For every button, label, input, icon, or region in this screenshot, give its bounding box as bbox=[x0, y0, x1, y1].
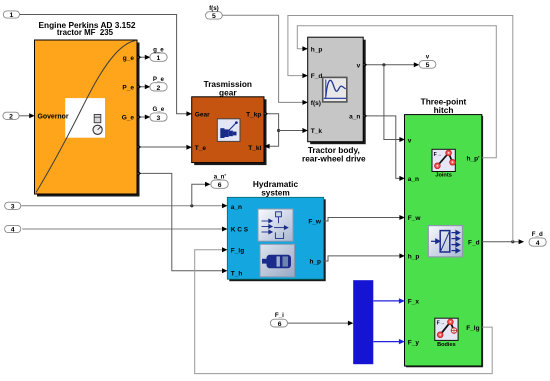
svg-text:f(s): f(s) bbox=[209, 5, 219, 12]
hydramatic port labels bbox=[231, 204, 322, 277]
svg-text:h_p': h_p' bbox=[466, 156, 480, 163]
wire branch to a_n' oval bbox=[192, 184, 206, 206]
inport 5 f(s) bbox=[206, 5, 223, 20]
svg-text:5: 5 bbox=[212, 13, 216, 20]
arrow out1 bbox=[145, 55, 151, 60]
arrow v hitch bbox=[399, 137, 405, 142]
hydramatic valve icon bbox=[258, 209, 293, 241]
svg-text:h_p: h_p bbox=[408, 254, 420, 261]
node junction T_k bbox=[277, 129, 280, 132]
inport 4 bbox=[5, 225, 21, 233]
hitch Joints icon bbox=[432, 149, 455, 171]
arrow K C S bbox=[222, 227, 228, 232]
transmission port labels bbox=[195, 111, 262, 152]
arrow f(s) bbox=[302, 100, 308, 105]
demux block bbox=[353, 280, 373, 364]
arrow out3 bbox=[145, 115, 151, 120]
svg-text:f(s): f(s) bbox=[311, 100, 321, 107]
svg-text:T_kp: T_kp bbox=[246, 111, 261, 118]
block Transmission gear bbox=[192, 97, 267, 165]
hitch port labels bbox=[408, 137, 480, 346]
svg-text:K C S: K C S bbox=[231, 226, 249, 233]
svg-text:5: 5 bbox=[426, 62, 430, 69]
svg-text:G_e: G_e bbox=[153, 106, 165, 113]
outport 4 F_d bbox=[529, 231, 546, 247]
svg-text:a_n': a_n' bbox=[214, 173, 227, 180]
wire in1 to Gear bbox=[20, 15, 188, 114]
arrow Gear bbox=[186, 111, 192, 116]
wire F_d to out4 bbox=[482, 241, 519, 243]
hitch sensor icon bbox=[428, 226, 462, 257]
outport 1 g_e bbox=[150, 46, 167, 62]
svg-text:a_n: a_n bbox=[349, 114, 360, 121]
block Three-point hitch bbox=[405, 115, 484, 368]
wire F_w to hitch bbox=[324, 218, 400, 222]
block Tractor body bbox=[308, 37, 366, 144]
svg-text:h_p: h_p bbox=[311, 46, 323, 53]
svg-text:F_y: F_y bbox=[408, 339, 420, 346]
engine piston icon bbox=[93, 115, 102, 135]
svg-text:T_k: T_k bbox=[311, 128, 323, 135]
svg-text:4: 4 bbox=[536, 240, 540, 247]
node junction F_d bbox=[511, 240, 514, 243]
node junction v bbox=[382, 63, 385, 66]
wire g_e to out1 bbox=[138, 56, 146, 58]
svg-text:F_w: F_w bbox=[408, 215, 422, 222]
svg-text:v: v bbox=[357, 62, 361, 69]
svg-text:F_lg: F_lg bbox=[231, 247, 244, 254]
wire engine to T_h bbox=[138, 173, 223, 270]
arrow T_e bbox=[186, 145, 192, 150]
wire v branch to hitch bbox=[384, 65, 400, 140]
svg-text:Joints: Joints bbox=[435, 173, 451, 179]
svg-text:F→: F→ bbox=[437, 321, 445, 327]
arrow a_n hitch bbox=[399, 176, 405, 181]
wire in4 to K C S bbox=[22, 228, 223, 230]
wire G_e to out3 bbox=[138, 116, 146, 118]
svg-text:h_p: h_p bbox=[309, 259, 321, 266]
svg-text:T_e: T_e bbox=[195, 145, 207, 152]
outport 3 G_e bbox=[150, 106, 167, 122]
transmission title bbox=[204, 79, 252, 97]
svg-text:T_h: T_h bbox=[231, 270, 243, 277]
svg-text:v: v bbox=[426, 54, 430, 61]
wire in2 to Governor bbox=[19, 115, 30, 117]
engine port labels bbox=[122, 55, 135, 122]
hitch Bodies icon bbox=[435, 318, 458, 340]
tractor body output port marks bbox=[364, 63, 367, 118]
arrow F_y bbox=[399, 339, 405, 344]
outport 5 v bbox=[419, 54, 436, 69]
wire demux to F_x bbox=[374, 300, 400, 302]
svg-text:rear-wheel drive: rear-wheel drive bbox=[302, 154, 366, 164]
arrow demux bbox=[348, 321, 354, 326]
inport 1 bbox=[3, 11, 19, 19]
inport 6 F_i bbox=[270, 312, 287, 328]
arrow out5 bbox=[414, 62, 420, 67]
svg-text:a_n: a_n bbox=[231, 204, 242, 211]
wire demux to F_y bbox=[374, 341, 400, 343]
arrow Governor bbox=[29, 113, 35, 118]
wire h_p' feedback loop bbox=[297, 26, 496, 158]
tractor body title bbox=[302, 145, 366, 163]
arrow out2 bbox=[145, 84, 151, 89]
arrow F_lg hyd bbox=[222, 247, 228, 252]
svg-text:P_e: P_e bbox=[122, 84, 134, 91]
wire v to out5 bbox=[363, 64, 414, 66]
svg-text:1: 1 bbox=[157, 55, 161, 62]
arrow T_h bbox=[222, 268, 228, 273]
inport 3 bbox=[5, 202, 21, 210]
svg-text:Bodies: Bodies bbox=[437, 342, 456, 348]
arrow F_x bbox=[399, 298, 405, 303]
svg-text:4: 4 bbox=[11, 227, 15, 234]
wire T_e bbox=[138, 146, 188, 148]
hitch title bbox=[421, 97, 467, 115]
arrow h_p hitch bbox=[399, 253, 405, 258]
arrow F_d body bbox=[302, 73, 308, 78]
arrow T_kl bbox=[264, 144, 270, 149]
svg-text:G_e: G_e bbox=[122, 115, 135, 122]
svg-text:3: 3 bbox=[157, 115, 161, 122]
svg-text:F→: F→ bbox=[434, 152, 442, 158]
engine title bbox=[39, 20, 136, 37]
svg-text:6: 6 bbox=[278, 321, 282, 328]
tractor body port labels bbox=[311, 46, 361, 135]
svg-text:F_d: F_d bbox=[532, 231, 543, 238]
svg-text:a_n: a_n bbox=[408, 176, 419, 183]
svg-text:P_e: P_e bbox=[153, 76, 165, 83]
svg-text:F_i: F_i bbox=[275, 312, 284, 319]
arrow T_k bbox=[302, 128, 308, 133]
arrow out4 bbox=[519, 239, 525, 244]
transmission gearbox icon bbox=[217, 119, 240, 142]
outport 2 P_e bbox=[150, 76, 167, 92]
svg-text:Gear: Gear bbox=[195, 111, 210, 118]
svg-text:1: 1 bbox=[10, 12, 14, 19]
block Engine subsystem bbox=[35, 40, 140, 197]
svg-text:g_e: g_e bbox=[123, 55, 135, 62]
svg-text:F_d: F_d bbox=[311, 73, 323, 80]
svg-text:2: 2 bbox=[9, 114, 13, 121]
engine white inset bbox=[65, 98, 105, 138]
node junction a_n' bbox=[190, 204, 193, 207]
arrow a_n' oval bbox=[205, 182, 211, 187]
svg-text:F_x: F_x bbox=[408, 299, 420, 306]
svg-text:hitch: hitch bbox=[434, 105, 454, 115]
svg-text:tractor MF 235: tractor MF 235 bbox=[57, 28, 114, 37]
wire T_kp loop to T_kl bbox=[264, 114, 278, 147]
tractor body scope icon bbox=[323, 77, 347, 102]
transmission T_kp port mark bbox=[265, 112, 268, 116]
wire F_d feedback loop bbox=[288, 16, 513, 242]
svg-text:gear: gear bbox=[219, 88, 237, 98]
wire P_e to out2 bbox=[138, 86, 146, 88]
wire F_lg feedback loop bbox=[195, 250, 493, 374]
wire h_p hyd to hitch bbox=[324, 256, 400, 261]
hydramatic title bbox=[253, 179, 299, 197]
outport 6 a_n' bbox=[211, 173, 228, 189]
inport 2 bbox=[3, 112, 19, 120]
wire in6 F_i to demux bbox=[288, 322, 349, 324]
block Hydramatic system bbox=[227, 197, 325, 281]
arrow F_w hitch bbox=[399, 215, 405, 220]
svg-text:F_lg: F_lg bbox=[466, 325, 479, 332]
svg-text:3: 3 bbox=[11, 204, 15, 211]
svg-text:T_kl: T_kl bbox=[248, 145, 261, 152]
wire junction to T_k bbox=[279, 130, 303, 132]
engine output port marks bbox=[138, 55, 141, 175]
svg-text:F_w: F_w bbox=[308, 219, 322, 226]
svg-text:2: 2 bbox=[157, 85, 161, 92]
svg-text:6: 6 bbox=[218, 182, 222, 189]
wire in5 f(s) to tractor body bbox=[222, 15, 303, 102]
wire a_n body to hitch bbox=[363, 116, 400, 178]
arrow h_p body bbox=[302, 46, 308, 51]
svg-text:v: v bbox=[408, 137, 412, 144]
engine torque curve bbox=[36, 40, 137, 192]
svg-text:F_d: F_d bbox=[468, 240, 480, 247]
svg-text:system: system bbox=[261, 187, 290, 197]
arrow a_n hyd bbox=[222, 203, 228, 208]
svg-text:Governor: Governor bbox=[38, 114, 69, 121]
svg-text:g_e: g_e bbox=[153, 46, 164, 53]
hydramatic cylinder icon bbox=[260, 244, 295, 276]
wire in3 to a_n bbox=[21, 205, 223, 207]
